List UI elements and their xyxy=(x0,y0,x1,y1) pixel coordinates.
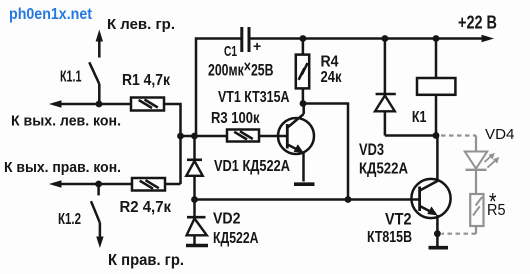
svg-text:R2 4,7к: R2 4,7к xyxy=(120,199,172,216)
svg-text:VD1 КД522А: VD1 КД522А xyxy=(214,158,290,175)
svg-text:R3 100к: R3 100к xyxy=(211,110,260,127)
node L dot (VT2 emitter) xyxy=(434,230,441,237)
svg-text:+: + xyxy=(253,38,261,54)
wire: rail to relay K1 xyxy=(435,39,438,79)
switch K1.1 blade xyxy=(89,62,99,84)
resistor R2 xyxy=(132,178,165,191)
wire: VD3 bottom to node K xyxy=(385,134,436,137)
svg-text:К вых. лев. кон.: К вых. лев. кон. xyxy=(11,112,121,129)
wire: node B to R2 xyxy=(99,183,132,186)
node I dot (rail / VD3) xyxy=(382,35,389,42)
wire: R4 bottom to node F xyxy=(302,88,305,103)
diode VD2 xyxy=(187,200,207,245)
switch K1.2 xyxy=(91,184,104,248)
label * R5 xyxy=(487,189,506,220)
svg-text:К прав. гр.: К прав. гр. xyxy=(108,252,184,269)
LED VD4 xyxy=(465,136,500,194)
svg-text:VT1 КТ315А: VT1 КТ315А xyxy=(218,89,290,106)
svg-text:VT2: VT2 xyxy=(385,211,412,229)
wire: arrow up to left speaker group xyxy=(96,30,103,58)
wire: top-left rail corner down to node D xyxy=(196,39,241,137)
svg-text:К1.2: К1.2 xyxy=(58,211,81,228)
node J dot (rail / K1) xyxy=(433,35,440,42)
svg-text:200мк×25В: 200мк×25В xyxy=(208,58,274,80)
wire: bus link to diode column xyxy=(181,135,195,138)
power label +22 В with arrow xyxy=(458,12,497,42)
resistor R1 xyxy=(131,98,164,111)
transistor VT2 xyxy=(411,136,450,247)
ground (VT1 emitter) xyxy=(294,182,315,186)
wire: R5 bottom dashed to VT2 emitter xyxy=(442,226,477,234)
ground (VT2 emitter) xyxy=(429,246,449,250)
ground (below VD2) xyxy=(186,244,208,248)
wire: +22V rail xyxy=(251,37,484,40)
svg-text:24к: 24к xyxy=(321,69,343,86)
node F dot (VT1 collector / R4) xyxy=(300,100,307,107)
svg-text:VD2: VD2 xyxy=(213,211,241,228)
node A junction dot xyxy=(96,101,103,108)
svg-text:R5: R5 xyxy=(487,202,506,219)
wire: node A to R1 xyxy=(99,103,131,106)
node K dot (K1 / VD3 / VT2 collector) xyxy=(433,132,440,139)
svg-text:+22 В: +22 В xyxy=(458,12,497,32)
wire: K1 bottom to node K xyxy=(435,95,438,136)
wire: arrow to right output xyxy=(49,180,99,187)
svg-text:К1.1: К1.1 xyxy=(60,69,82,86)
svg-text:ph0en1x.net: ph0en1x.net xyxy=(9,6,92,23)
svg-text:VD4: VD4 xyxy=(485,126,515,143)
svg-text:VD3: VD3 xyxy=(359,141,384,159)
svg-text:КД522А: КД522А xyxy=(213,230,259,247)
svg-text:КТ815В: КТ815В xyxy=(367,229,412,246)
wire: R3 row from node D xyxy=(195,135,228,138)
svg-text:К1: К1 xyxy=(412,109,427,126)
svg-text:КД522А: КД522А xyxy=(359,161,408,178)
transistor VT1 xyxy=(278,104,314,182)
wire: R2 right to vertical bus xyxy=(165,183,181,186)
wire: rail to R4 xyxy=(302,39,305,55)
svg-text:К вых. прав. кон.: К вых. прав. кон. xyxy=(4,159,121,176)
relay K1 coil xyxy=(417,78,455,95)
wire: R1 right to vertical bus xyxy=(164,104,181,184)
wire: R3 to VT1 base xyxy=(259,135,287,138)
svg-text:R1 4,7к: R1 4,7к xyxy=(122,72,171,89)
node E dot (VD1/VD2 junction) xyxy=(191,196,198,203)
node D dot (R3 / VD1 junction) xyxy=(191,133,198,140)
node C dot on bus (R1/R2 join) xyxy=(177,133,184,140)
diode VD3 xyxy=(375,39,396,136)
resistor R4 xyxy=(296,55,309,89)
resistor R3 xyxy=(227,130,259,142)
node B junction dot xyxy=(95,181,102,188)
wire: node E row to VT2 base xyxy=(195,198,420,201)
wire: K1.1 to node A xyxy=(98,84,101,104)
svg-text:К лев. гр.: К лев. гр. xyxy=(107,16,175,33)
resistor R5 (optional, grey) xyxy=(470,194,483,226)
svg-text:C1: C1 xyxy=(224,43,237,60)
node G dot on VT2 base wire xyxy=(345,196,352,203)
capacitor C1 xyxy=(240,27,261,54)
wire: arrow to left output xyxy=(49,100,99,107)
wire: dashed link node K to LED VD4 xyxy=(441,134,476,136)
node H dot (rail / R4 top) xyxy=(300,35,307,42)
wire: collector link to VT2 base xyxy=(303,104,348,200)
diode VD1 xyxy=(186,136,202,200)
